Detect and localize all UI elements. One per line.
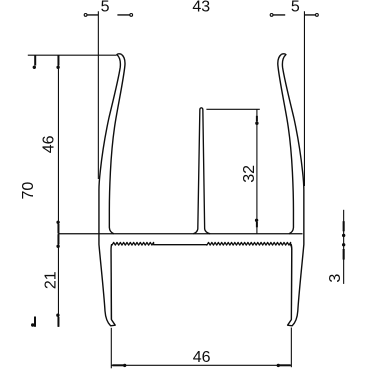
wire: extension line right x=304.45 — [303, 11, 305, 186]
profile: left lip outer outline and left leg — [99, 54, 121, 326]
profile: right wall inner face and lip inner edge — [278, 54, 294, 234]
wire: dim line 46-left x=58.45 — [57, 55, 59, 234]
svg-text:21: 21 — [43, 271, 60, 289]
node: terminator 46-bottom right — [277, 364, 291, 367]
wire: ext line 32 horizontal y=109.35 — [206, 108, 259, 110]
node: terminator 21-left top — [57, 234, 60, 247]
svg-text:46: 46 — [41, 135, 58, 153]
svg-text:43: 43 — [192, 0, 210, 16]
node: terminator 32 top — [256, 116, 259, 125]
node: top dimension end dots — [84, 14, 318, 17]
node: terminator 46-left bottom — [57, 221, 60, 234]
svg-text:5: 5 — [101, 0, 110, 15]
wire: bottom ext line left x=111.3 — [110, 328, 112, 369]
svg-text:46: 46 — [193, 349, 211, 366]
node: terminator 21-left bottom — [57, 314, 60, 327]
wire: dim line 21-left x=58.45 — [57, 234, 59, 327]
wire: top dimension line segments at y=14.9 — [86, 14, 317, 16]
wire: left leg inner edge emphasis — [110, 249, 112, 319]
profile: right lip outer outline and right leg — [282, 54, 304, 326]
svg-text:5: 5 — [291, 0, 300, 15]
node: terminator 46-bottom left — [112, 364, 126, 367]
profile: middle wall — [193, 108, 210, 234]
profile: left wall inner face and lip inner edge — [109, 54, 125, 234]
wire: right leg inner edge emphasis — [291, 249, 293, 319]
wire: bottom ext line right x=291.35 — [290, 328, 292, 368]
node: terminator 70 bottom stub — [31, 317, 35, 327]
wire: dim line 3 right x=343.65 — [343, 210, 345, 284]
svg-text:70: 70 — [20, 182, 37, 200]
svg-text:32: 32 — [241, 165, 258, 183]
node: terminator 32 bottom — [255, 219, 258, 227]
wire: bottom dim line 46 y=365.3 — [111, 364, 291, 366]
node: terminator 3 top — [342, 221, 345, 237]
profile: serrated web bottom surface — [112, 242, 292, 250]
node: terminator 70 top stub — [33, 55, 36, 68]
node: terminator 46-left top — [57, 55, 60, 68]
node: terminator 3 bottom — [342, 244, 345, 260]
svg-text:3: 3 — [327, 274, 344, 283]
wire: extension line horizontal y=55.15 — [28, 54, 117, 56]
wire: extension line left x=98.35 — [97, 11, 99, 179]
wire: dim line 32 x=256.9 — [256, 109, 258, 233]
profile: base web top line y=233.8 — [58, 233, 302, 235]
